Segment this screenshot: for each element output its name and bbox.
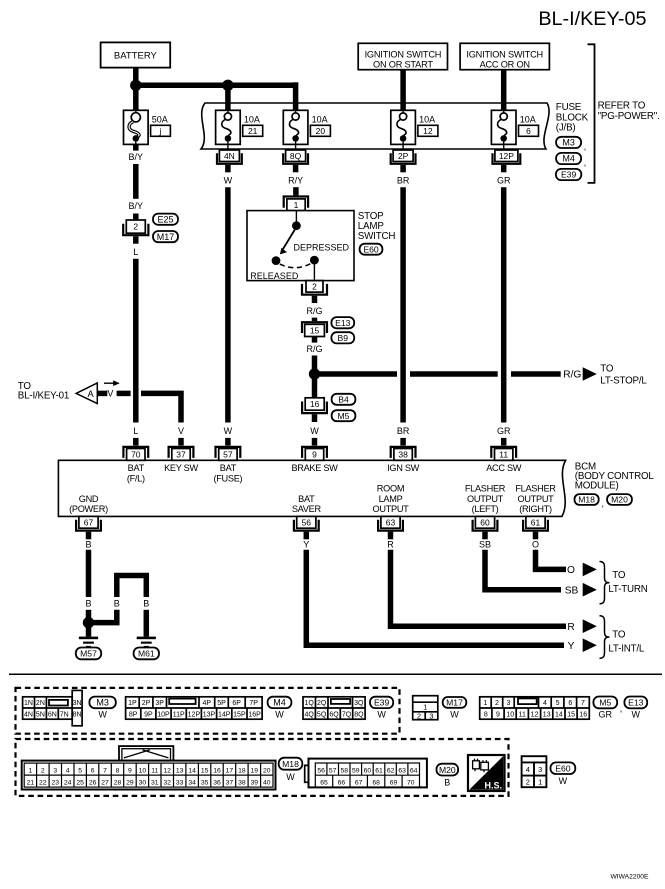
wire stub below fuse block W [225,165,231,172]
svg-text:37: 37 [226,779,234,786]
ignition switch ON OR START [358,43,447,69]
wire stub below BCM pin 60 [482,532,488,540]
svg-text:R/G: R/G [563,370,581,381]
svg-text:BAT: BAT [128,463,145,473]
svg-text:3P: 3P [155,700,164,707]
svg-text:FLASHER: FLASHER [465,484,506,494]
wire elbow junction to M61 [89,576,147,623]
connector ref M3 [556,137,581,148]
H.S. harness-side logo [468,755,505,791]
svg-text:B: B [444,778,450,788]
svg-text:61: 61 [375,767,383,774]
svg-text:GR: GR [497,176,511,186]
wire battery to bus [133,68,139,86]
svg-text:2N: 2N [36,700,45,707]
svg-text:31: 31 [151,779,159,786]
svg-text:8P: 8P [129,711,138,718]
wire to M61 ground [144,610,150,637]
fuse 20 10A [283,110,308,144]
lead depressed to terminal 2 [313,264,315,280]
svg-text:9: 9 [312,450,317,460]
BCM terminal 63 [381,516,400,528]
BCM terminal 37 [169,447,194,458]
svg-text:B/Y: B/Y [129,152,144,162]
svg-text:E39: E39 [561,170,577,180]
svg-text:B4: B4 [338,395,349,405]
svg-text:22: 22 [39,779,47,786]
wire bus to fuse 21 [225,85,231,110]
svg-text:1: 1 [538,778,542,787]
connector ref M17 [153,231,178,242]
svg-text:10A: 10A [244,115,260,125]
svg-text:BRAKE SW: BRAKE SW [291,463,338,473]
svg-text:5Q: 5Q [317,711,327,718]
svg-text:LT-STOP/L: LT-STOP/L [600,375,647,386]
svg-text:,: , [584,142,587,152]
svg-text:9: 9 [496,711,500,718]
svg-text:O: O [532,539,539,549]
svg-text:W: W [286,772,295,782]
svg-text:,: , [620,704,623,714]
svg-text:29: 29 [126,779,134,786]
svg-text:BL-I/KEY-01: BL-I/KEY-01 [18,391,69,402]
BCM terminal 70 [123,447,148,458]
BCM terminal 60 [475,516,494,528]
svg-text:21: 21 [248,126,258,136]
svg-text:IGNITION SWITCH: IGNITION SWITCH [365,49,442,59]
connector terminal 2P [402,144,404,150]
svg-text:60: 60 [364,767,372,774]
svg-text:56: 56 [302,517,312,527]
svg-text:SB: SB [565,585,579,596]
svg-text:1: 1 [484,700,488,707]
connector face M17 [413,696,438,720]
connector ref E39 [556,169,581,180]
svg-text:W: W [224,426,233,436]
wire stub into BCM pin 9 [312,438,318,446]
svg-text:2: 2 [495,700,499,707]
svg-text:DEPRESSED: DEPRESSED [293,243,349,253]
svg-text:9P: 9P [144,711,153,718]
svg-text:6Q: 6Q [329,711,339,718]
svg-text:"PG-POWER".: "PG-POWER". [598,111,660,122]
svg-text:,: , [602,499,605,509]
svg-text:14: 14 [188,767,196,774]
wire stub into BCM pin 70 [133,438,139,446]
svg-text:15P: 15P [233,711,246,718]
svg-text:56: 56 [317,767,325,774]
svg-text:15: 15 [201,767,209,774]
svg-text:12P: 12P [499,151,514,161]
svg-text:TO: TO [612,570,626,581]
svg-text:SWITCH: SWITCH [358,231,396,242]
svg-text:RELEASED: RELEASED [250,271,299,281]
svg-text:1: 1 [29,767,33,774]
connector ref M4 [556,153,581,164]
svg-text:V: V [107,389,113,399]
svg-text:E13: E13 [628,698,644,708]
svg-text:63: 63 [398,767,406,774]
svg-text:W: W [450,710,459,720]
svg-text:11: 11 [499,450,508,460]
wire bus horizontal [136,83,296,89]
svg-text:W: W [98,710,107,720]
svg-text:10A: 10A [312,115,328,125]
connector ref M3 / W [89,697,115,709]
svg-text:8Q: 8Q [354,711,364,718]
svg-text:4: 4 [526,765,530,774]
wire SB to LT-TURN [485,550,561,590]
svg-text:A: A [87,389,94,399]
svg-text:W: W [275,710,284,720]
svg-text:4N: 4N [224,151,235,161]
svg-text:M20: M20 [611,495,628,505]
svg-text:7N: 7N [60,711,69,718]
terminal 2 stop lamp switch [306,281,323,293]
junction R/G [309,368,320,379]
wire stub below fuse block R/Y [293,165,299,172]
svg-text:TO: TO [600,364,614,375]
svg-text:67: 67 [84,517,94,527]
connector ref E13 [331,317,354,328]
svg-text:2: 2 [312,281,317,291]
wire stub into BCM pin 57 [225,438,231,446]
ignition switch ACC OR ON [460,43,549,69]
svg-text:4N: 4N [24,711,33,718]
wire stub below connector 16 [312,414,318,422]
svg-text:10: 10 [506,711,514,718]
svg-text:10A: 10A [520,115,536,125]
svg-text:69: 69 [390,780,398,787]
connector ref E60 [360,244,383,255]
svg-text:L: L [133,426,138,436]
arrow to LT-STOP/L [583,367,597,381]
wire BR column [400,187,406,422]
wire into connector 2 [133,214,139,221]
wire bus to fuse 20 [293,82,299,110]
svg-text:14P: 14P [218,711,231,718]
connector ref M5 [332,410,356,421]
BCM box outline [58,460,565,516]
svg-text:7Q: 7Q [342,711,352,718]
svg-text:M5: M5 [599,698,611,708]
connector ref M18 [575,494,599,505]
svg-text:16: 16 [213,767,221,774]
svg-text:34: 34 [188,779,196,786]
svg-text:M17: M17 [446,698,463,708]
junction at battery column [130,80,141,91]
svg-text:60: 60 [480,517,490,527]
svg-text:61: 61 [531,517,541,527]
svg-text:OUTPUT: OUTPUT [373,504,410,514]
svg-text:18: 18 [238,767,246,774]
wire O to LT-TURN [536,550,567,570]
wire B/Y [133,164,139,199]
svg-text:E60: E60 [555,763,571,773]
svg-text:M5: M5 [338,411,350,421]
svg-text:16: 16 [579,711,587,718]
svg-text:33: 33 [176,779,184,786]
svg-text:O: O [567,565,575,576]
svg-text:ACC SW: ACC SW [486,463,522,473]
svg-text:4P: 4P [203,700,212,707]
svg-text:E13: E13 [335,318,351,328]
svg-text:4Q: 4Q [305,711,315,718]
svg-text:6P: 6P [232,700,241,707]
svg-text:23: 23 [52,779,60,786]
svg-text:ROOM: ROOM [377,484,404,494]
svg-text:20: 20 [263,767,271,774]
svg-text:14: 14 [555,711,563,718]
svg-text:20: 20 [316,126,326,136]
switch pivot contact [292,221,301,230]
svg-text:B: B [114,599,120,609]
svg-text:R/G: R/G [306,306,322,316]
wire stub below BCM pin 61 [533,532,539,540]
svg-text:27: 27 [101,779,109,786]
wire stub below fuse block BR [400,165,406,172]
svg-text:W: W [377,710,386,720]
svg-text:5: 5 [556,700,560,707]
svg-text:21: 21 [27,779,35,786]
fuse 6 10A [491,110,516,144]
svg-text:12: 12 [163,767,171,774]
svg-text:57: 57 [329,767,337,774]
svg-text:3Q: 3Q [354,700,364,707]
connector ref M4 / W [268,697,292,708]
svg-text:7P: 7P [249,700,258,707]
svg-text:LAMP: LAMP [379,494,403,504]
svg-text:BAT: BAT [220,463,237,473]
svg-text:8: 8 [116,767,120,774]
fuse 21 10A [216,110,241,144]
svg-text:1: 1 [423,703,427,712]
switch arm with arrowhead [283,230,295,249]
svg-text:12P: 12P [188,711,201,718]
svg-text:57: 57 [223,450,233,460]
svg-text:2P: 2P [142,700,151,707]
svg-text:R: R [567,622,574,633]
direction arrow [104,382,114,384]
wire stub into BCM pin 11 [501,438,507,446]
wire R/Y to stop lamp switch [293,187,299,195]
wire bus to fuse j [133,85,139,110]
dashed group box row 2 [16,739,509,796]
svg-text:3: 3 [507,700,511,707]
connector 2 (E25/M17) [126,220,145,233]
connector ref E39 / W [370,697,393,708]
wire V segment to column [141,393,181,422]
page connector triangle A [76,383,97,404]
svg-text:10A: 10A [419,115,435,125]
svg-text:1P: 1P [128,700,137,707]
svg-text:R: R [387,539,394,549]
svg-text:58: 58 [341,767,349,774]
svg-text:L: L [133,247,138,257]
connector ref M20 / B [437,764,459,776]
svg-text:6: 6 [91,767,95,774]
svg-text:j: j [159,126,162,136]
svg-text:V: V [178,426,184,436]
svg-text:67: 67 [355,780,363,787]
svg-text:50A: 50A [152,115,168,125]
brace TO LT-TURN [600,562,610,604]
wire Y to LT-INT/L [306,550,564,645]
svg-text:M4: M4 [562,154,575,164]
ground junction [83,617,94,628]
svg-text:W: W [310,426,319,436]
svg-text:R/G: R/G [306,344,322,354]
BCM terminal 67 [79,516,98,528]
svg-text:SAVER: SAVER [292,504,322,514]
svg-text:66: 66 [338,780,346,787]
svg-text:16P: 16P [248,711,261,718]
svg-text:5: 5 [78,767,82,774]
svg-text:30: 30 [139,779,147,786]
connector ref B4 [332,394,356,405]
separator line [9,673,662,675]
svg-text:39: 39 [251,779,259,786]
svg-text:3: 3 [429,711,433,720]
svg-text:W: W [224,176,233,186]
svg-text:W: W [559,776,568,786]
svg-text:B: B [85,599,91,609]
svg-text:24: 24 [64,779,72,786]
svg-text:2: 2 [133,222,138,232]
connector terminal 12P [503,144,505,150]
wire ignition acc to fuse 6 [501,70,507,111]
svg-text:B: B [143,599,149,609]
svg-text:ACC OR ON: ACC OR ON [480,59,530,69]
wire R/G to junction [312,356,318,398]
svg-text:,: , [584,158,587,168]
wire below fuse j [133,144,139,150]
svg-text:40: 40 [263,779,271,786]
released contact [272,256,281,265]
fuse j 50A [124,110,149,144]
svg-text:13: 13 [176,767,184,774]
svg-text:36: 36 [213,779,221,786]
connector ref E25 [153,214,178,225]
svg-text:13: 13 [543,711,551,718]
BCM terminal 56 [297,516,316,528]
svg-text:M17: M17 [157,232,175,242]
svg-text:2: 2 [41,767,45,774]
svg-text:6: 6 [568,700,572,707]
svg-text:3: 3 [53,767,57,774]
svg-text:2: 2 [526,778,530,787]
svg-text:62: 62 [387,767,395,774]
BCM terminal 9 [302,447,327,458]
svg-text:BR: BR [397,176,410,186]
svg-text:38: 38 [398,450,408,460]
svg-text:65: 65 [320,780,328,787]
svg-text:12: 12 [531,711,539,718]
svg-text:6: 6 [526,126,531,136]
svg-text:R/Y: R/Y [288,176,303,186]
wire GR column [501,187,507,422]
svg-text:10P: 10P [157,711,170,718]
svg-text:26: 26 [89,779,97,786]
svg-text:(J/B): (J/B) [556,122,576,133]
svg-text:B/Y: B/Y [129,201,144,211]
junction at fuse 21 column [222,80,233,91]
connector ref M18 / W [279,758,303,770]
svg-text:IGN SW: IGN SW [387,463,420,473]
switch pivot lead [295,211,297,222]
connector 15 (E13/B9) [302,322,327,333]
stop lamp switch box E60 [247,211,354,281]
svg-text:LT-INT/L: LT-INT/L [608,643,645,654]
svg-text:Y: Y [303,539,309,549]
svg-text:38: 38 [238,779,246,786]
svg-text:11: 11 [519,711,526,718]
svg-text:MODULE): MODULE) [575,481,619,492]
svg-text:Y: Y [568,641,575,652]
svg-text:11: 11 [151,767,158,774]
wire stub below BCM pin 63 [388,532,394,540]
svg-text:M18: M18 [578,495,595,505]
svg-text:7: 7 [103,767,107,774]
svg-text:5P: 5P [217,700,226,707]
svg-text:3: 3 [538,765,542,774]
svg-text:KEY SW: KEY SW [164,463,198,473]
connector ref M20 [607,494,632,505]
wire ignition on/start to fuse 12 [400,70,406,111]
svg-text:OUTPUT: OUTPUT [518,494,555,504]
svg-text:LT-TURN: LT-TURN [608,584,647,595]
wire R/G to connector 15 [312,318,318,321]
wire W column [225,187,231,422]
connector terminal 4N [227,144,229,150]
svg-text:(LEFT): (LEFT) [472,504,499,514]
svg-text:(RIGHT): (RIGHT) [519,504,552,514]
svg-text:68: 68 [372,780,380,787]
fuse block (J/B) band [201,103,549,149]
svg-text:WIWA2200E: WIWA2200E [610,873,649,880]
brace TO LT-INT/L [600,616,610,659]
wire stub below BCM pin 56 [304,532,310,540]
svg-text:B: B [85,539,91,549]
wire B down [86,550,92,597]
svg-text:IGNITION SWITCH: IGNITION SWITCH [466,49,543,59]
svg-text:M3: M3 [562,138,575,148]
svg-text:E25: E25 [157,214,173,224]
svg-text:2: 2 [417,711,421,720]
connector face E39 [303,697,365,719]
svg-text:2Q: 2Q [317,700,327,707]
BCM terminal 11 [491,447,516,458]
svg-text:BAT: BAT [298,494,315,504]
svg-text:59: 59 [352,767,360,774]
svg-text:8N: 8N [73,711,82,718]
svg-text:15: 15 [567,711,575,718]
svg-text:1: 1 [294,200,299,210]
svg-text:11P: 11P [173,711,185,718]
svg-text:GR: GR [497,426,511,436]
connector face E60 [522,756,547,787]
svg-text:SB: SB [479,539,491,549]
svg-text:7: 7 [581,700,585,707]
svg-text:12: 12 [423,126,433,136]
svg-text:13P: 13P [203,711,216,718]
svg-text:GR: GR [599,710,613,720]
svg-text:M3: M3 [96,698,109,708]
svg-text:FLASHER: FLASHER [515,484,556,494]
svg-text:4: 4 [543,700,547,707]
svg-text:32: 32 [163,779,171,786]
svg-text:2P: 2P [398,151,409,161]
